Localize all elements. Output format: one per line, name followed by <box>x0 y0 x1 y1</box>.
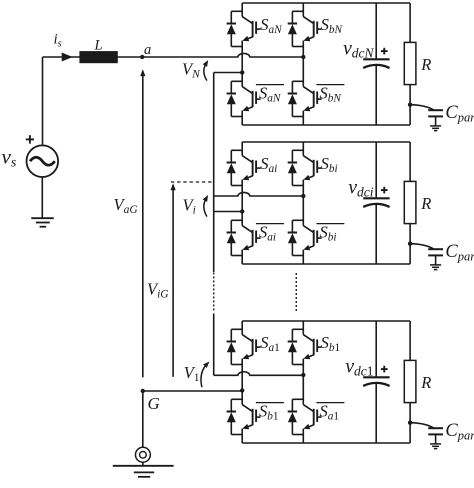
svg-text:R: R <box>420 55 431 74</box>
svg-text:R: R <box>420 194 431 213</box>
svg-text:G: G <box>148 394 160 413</box>
svg-text:L: L <box>94 38 103 54</box>
svg-text:a: a <box>144 42 151 58</box>
svg-text:R: R <box>420 373 431 392</box>
